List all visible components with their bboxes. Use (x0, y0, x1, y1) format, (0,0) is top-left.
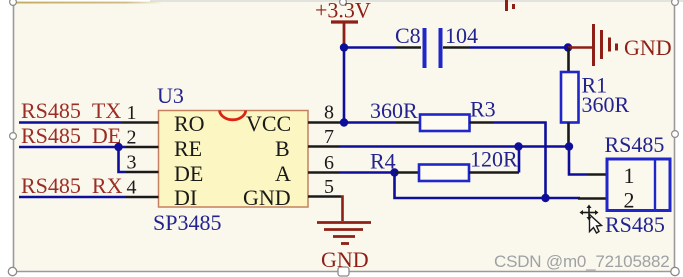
svg-text:4: 4 (127, 177, 137, 199)
wire R4 up to B net (518, 147, 521, 173)
svg-text:RS485 DE: RS485 DE (21, 123, 121, 148)
handle top-mid (340, 0, 347, 5)
svg-text:B: B (275, 136, 290, 161)
svg-text:DE: DE (174, 161, 203, 186)
svg-text:R3: R3 (470, 97, 496, 122)
svg-text:2: 2 (127, 127, 137, 149)
svg-text:VCC: VCC (246, 111, 291, 136)
capacitor C8 plates (425, 28, 441, 68)
wire B to connector pin 1 (569, 147, 588, 175)
pin 3 lead (126, 171, 159, 174)
node VCC pin8 junction (340, 118, 348, 126)
svg-text:360R: 360R (370, 98, 418, 123)
svg-text:GND: GND (624, 35, 672, 60)
sheet bottom border (13, 271, 675, 273)
svg-text:RO: RO (174, 111, 205, 136)
wire RS485_TX (19, 121, 122, 124)
handle left-mid (10, 133, 17, 140)
connector pin 2 lead (578, 197, 607, 200)
node GND junction (564, 43, 572, 51)
pin 2 lead (126, 146, 159, 149)
pin 4 lead (126, 196, 159, 199)
sheet right border (674, 2, 676, 272)
resistor R4 pin left (395, 171, 420, 174)
cursor (580, 205, 602, 234)
svg-text:DI: DI (174, 185, 197, 210)
capacitor C8 pin right (443, 46, 470, 49)
node B junction R1 (565, 142, 573, 150)
svg-text:RS485 TX: RS485 TX (21, 98, 121, 123)
resistor R4 pin right (469, 171, 519, 174)
handle right-mid (672, 131, 679, 138)
svg-text:2: 2 (624, 188, 635, 213)
sheet top border (faint gray) (150, 0, 683, 2)
wire top rail to C8 (344, 46, 395, 49)
svg-text:CSDN @m0_72105882: CSDN @m0_72105882 (494, 252, 669, 271)
connector J1 body (607, 159, 670, 211)
partial power symbol top (507, 0, 514, 11)
IC U3 notch arc (220, 111, 246, 120)
handle bottom-left (8, 267, 16, 275)
handle top-left (10, 0, 17, 5)
wire C8 to GND node (470, 46, 568, 49)
ground GND symbol bars (594, 24, 617, 66)
wire RS485_RX (19, 196, 126, 199)
sheet left border (13, 2, 15, 272)
resistor R3 pin left (396, 121, 420, 124)
pin 1 lead (122, 121, 159, 124)
svg-text:+3.3V: +3.3V (315, 0, 371, 23)
handle bottom-mid (338, 267, 349, 276)
pin 7 lead (308, 145, 340, 148)
svg-text:A: A (275, 161, 291, 186)
svg-text:7: 7 (324, 126, 334, 148)
handle bottom-right (671, 267, 679, 275)
svg-text:SP3485: SP3485 (153, 210, 221, 235)
wire R3 to A net (494, 123, 546, 199)
svg-text:RS485: RS485 (605, 212, 665, 237)
svg-text:3: 3 (127, 152, 137, 174)
svg-text:RS485 RX: RS485 RX (21, 173, 123, 198)
resistor R3 body (420, 115, 470, 132)
svg-text:120R: 120R (470, 147, 518, 172)
node B junction R4 (514, 142, 522, 150)
svg-text:GND: GND (321, 247, 369, 272)
wire +3.3V vertical to pin 8 (343, 46, 346, 123)
pin 6 lead (308, 171, 340, 174)
svg-text:U3: U3 (157, 83, 184, 108)
svg-text:RE: RE (174, 136, 202, 161)
wire RS485_DE (19, 146, 126, 149)
pin 5 lead (308, 195, 341, 198)
svg-text:6: 6 (324, 152, 334, 174)
connector divider (654, 159, 656, 211)
ground symbol bottom bars (317, 223, 371, 244)
connector pin 1 lead (588, 173, 607, 176)
wire A net (340, 171, 396, 174)
node A junction (390, 168, 398, 176)
handle top-right (672, 0, 679, 5)
svg-text:8: 8 (324, 102, 334, 124)
svg-text:1: 1 (127, 102, 137, 124)
wire VCC to R3 (344, 121, 396, 124)
node top rail junction (340, 43, 348, 51)
svg-text:1: 1 (624, 163, 635, 188)
wire A net down extension (395, 173, 581, 199)
svg-text:360R: 360R (582, 92, 630, 117)
IC U1 body SP3485 (159, 111, 309, 208)
resistor R4 body (419, 165, 469, 182)
capacitor C8 pin left (395, 46, 421, 49)
power +3.3V symbol (331, 22, 358, 46)
wire B net (340, 145, 569, 148)
resistor R3 pin right (470, 121, 495, 124)
svg-text:5: 5 (324, 176, 334, 198)
resistor R1 pin top (567, 48, 570, 73)
node DE junction (114, 143, 122, 151)
wire DE vertical to pin 3 (119, 147, 127, 172)
svg-text:R4: R4 (370, 149, 396, 174)
ground GND lead right (568, 46, 592, 48)
resistor R1 body (561, 72, 579, 123)
pin 8 lead (308, 121, 344, 124)
svg-text:104: 104 (445, 23, 478, 48)
svg-text:C8: C8 (395, 23, 421, 48)
svg-text:RS485: RS485 (605, 132, 665, 157)
resistor R1 pin bottom (567, 123, 570, 147)
ground lead from pin 5 (341, 197, 343, 222)
node A extension junction (541, 194, 549, 202)
svg-text:GND: GND (243, 185, 291, 210)
